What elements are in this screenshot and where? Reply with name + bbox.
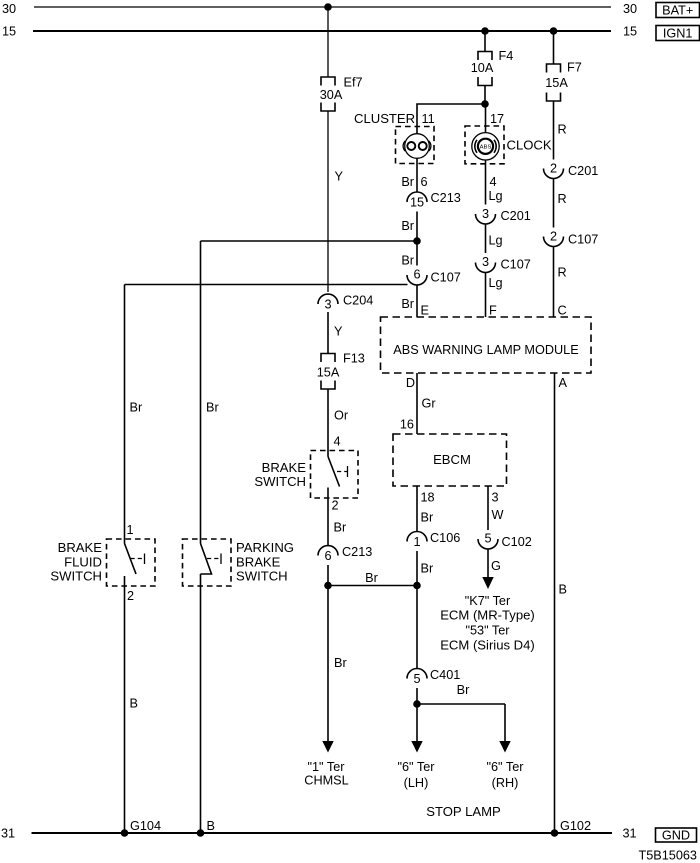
- svg-text:Lg: Lg: [489, 276, 503, 290]
- junction parking on bus 31: [197, 829, 205, 837]
- svg-text:C102: C102: [502, 535, 532, 549]
- wire C213 to stop lamp junction: [327, 565, 329, 586]
- wire C107 to module pin F: [485, 273, 487, 318]
- svg-text:BRAKE: BRAKE: [236, 554, 281, 569]
- junction LH RH split: [413, 700, 421, 708]
- wire EBCM pin 18 to C106: [416, 486, 418, 532]
- label "6" Ter (RH): [487, 760, 525, 790]
- svg-text:Or: Or: [334, 408, 349, 422]
- svg-text:W: W: [492, 508, 504, 522]
- svg-text:C106: C106: [430, 531, 460, 545]
- svg-text:Y: Y: [335, 169, 344, 183]
- junction G104 on bus 31: [121, 829, 129, 837]
- svg-text:"1" Ter: "1" Ter: [308, 760, 346, 774]
- svg-text:C201: C201: [568, 164, 598, 178]
- svg-text:31: 31: [1, 826, 15, 840]
- svg-text:B: B: [207, 819, 215, 833]
- label "6" Ter (LH): [398, 760, 436, 790]
- svg-text:"53" Ter: "53" Ter: [465, 624, 510, 638]
- wire bus 15 to fuse F4: [484, 31, 486, 52]
- ground symbol GND: [656, 828, 697, 842]
- wire bus 30 rail: [34, 6, 611, 8]
- wire C201 to C107: [553, 179, 555, 228]
- arrow to CHMSL: [322, 741, 333, 753]
- svg-text:T5B15063: T5B15063: [638, 849, 697, 863]
- svg-text:F4: F4: [499, 49, 514, 63]
- svg-text:F: F: [489, 304, 497, 318]
- junction G102 on bus 31: [551, 829, 559, 837]
- svg-text:F7: F7: [567, 61, 582, 75]
- wire to RH stop lamp: [504, 704, 506, 742]
- svg-text:Br: Br: [334, 656, 347, 670]
- svg-text:R: R: [558, 192, 567, 206]
- svg-text:ABS WARNING LAMP MODULE: ABS WARNING LAMP MODULE: [393, 343, 578, 357]
- svg-text:Br: Br: [130, 400, 143, 414]
- label BRAKE FLUID SWITCH: [50, 540, 102, 584]
- svg-text:Br: Br: [457, 683, 470, 697]
- wire module pin A to bus 31: [554, 373, 556, 833]
- junction stop lamp node: [413, 582, 421, 590]
- svg-text:Br: Br: [401, 219, 414, 233]
- wire C201 to C107: [485, 224, 487, 253]
- fuse Ef7: [321, 77, 335, 111]
- wire node to C401: [416, 586, 418, 670]
- brake fluid switch S2: [107, 539, 156, 586]
- wire C204 to fuse F13: [327, 312, 329, 354]
- svg-text:Br: Br: [421, 561, 434, 575]
- svg-text:2: 2: [550, 230, 557, 244]
- svg-text:C: C: [558, 304, 567, 318]
- svg-text:Gr: Gr: [422, 396, 437, 410]
- svg-text:"6" Ter: "6" Ter: [487, 760, 525, 774]
- svg-text:Br: Br: [206, 400, 219, 414]
- svg-text:Lg: Lg: [489, 189, 503, 203]
- svg-text:6: 6: [413, 268, 420, 282]
- connector C401 pin 5: [407, 669, 427, 686]
- wire bus 15 rail: [33, 30, 611, 32]
- wire junction to C107: [416, 241, 418, 266]
- svg-text:15A: 15A: [317, 366, 340, 380]
- svg-text:30: 30: [2, 2, 16, 16]
- svg-text:"K7" Ter: "K7" Ter: [465, 594, 511, 608]
- svg-text:15A: 15A: [545, 76, 568, 90]
- wire EBCM pin 3 to C102: [487, 486, 489, 530]
- svg-text:C107: C107: [568, 233, 598, 247]
- svg-text:ECM (MR-Type): ECM (MR-Type): [440, 608, 535, 623]
- wire junction to clock lamp: [485, 104, 487, 133]
- label "1" Ter CHMSL: [304, 760, 348, 787]
- wire F7 to C201: [553, 101, 555, 160]
- svg-text:R: R: [558, 265, 567, 279]
- svg-text:3: 3: [492, 490, 499, 504]
- wire bus 31 rail: [32, 832, 613, 834]
- svg-text:18: 18: [421, 490, 435, 504]
- connector C107 pin 3: [476, 255, 496, 273]
- svg-text:A: A: [559, 376, 568, 390]
- junction on bus 15 for F4: [481, 27, 489, 35]
- parking brake switch S3: [183, 539, 232, 586]
- connector C107 pin 6: [407, 268, 427, 286]
- svg-text:C204: C204: [343, 294, 373, 308]
- svg-text:Br: Br: [401, 297, 414, 311]
- svg-text:2: 2: [127, 589, 134, 603]
- svg-text:15: 15: [623, 25, 637, 39]
- svg-text:Y: Y: [334, 324, 343, 338]
- svg-text:IGN1: IGN1: [663, 26, 693, 40]
- svg-text:BRAKE: BRAKE: [262, 460, 307, 475]
- svg-text:CHMSL: CHMSL: [304, 773, 348, 787]
- svg-text:R: R: [558, 122, 567, 136]
- svg-text:30: 30: [623, 2, 637, 16]
- svg-text:6: 6: [324, 549, 331, 563]
- svg-text:SWITCH: SWITCH: [236, 569, 288, 584]
- svg-text:Br: Br: [401, 253, 414, 267]
- svg-text:CLOCK: CLOCK: [507, 138, 552, 153]
- fuse F13: [321, 354, 335, 390]
- svg-text:C201: C201: [501, 209, 531, 223]
- svg-text:B: B: [130, 696, 138, 710]
- svg-text:G102: G102: [560, 819, 591, 833]
- svg-text:1: 1: [413, 535, 420, 549]
- wire fuse Ef7 to C204: [327, 111, 329, 292]
- svg-text:F13: F13: [343, 351, 365, 365]
- svg-text:15: 15: [410, 195, 424, 209]
- svg-text:Br: Br: [365, 571, 378, 585]
- svg-text:C107: C107: [501, 258, 531, 272]
- svg-text:5: 5: [413, 672, 420, 686]
- svg-text:B: B: [559, 582, 567, 596]
- wire C106 to stop lamp node: [416, 551, 418, 586]
- svg-text:1: 1: [127, 523, 134, 537]
- indicator lamp ABS (clock): [465, 126, 504, 164]
- wire brake fluid switch to bus 31: [124, 576, 126, 833]
- ECU EBCM: [393, 434, 507, 486]
- svg-text:31: 31: [623, 826, 637, 840]
- wire tie to parking brake switch: [200, 241, 202, 544]
- svg-text:30A: 30A: [320, 88, 343, 102]
- svg-text:Br: Br: [334, 520, 347, 534]
- wire tie to brake fluid switch: [124, 285, 126, 544]
- wire C213 to tie junction: [416, 212, 418, 242]
- svg-text:E: E: [421, 304, 429, 318]
- svg-text:C213: C213: [342, 545, 372, 559]
- svg-text:G104: G104: [130, 819, 161, 833]
- connector C213 pin 6: [318, 546, 338, 563]
- svg-text:GND: GND: [662, 828, 690, 842]
- fuse F7: [547, 64, 561, 101]
- svg-text:4: 4: [334, 435, 341, 449]
- svg-text:C107: C107: [431, 271, 461, 285]
- wire F13 to brake switch: [327, 389, 329, 457]
- svg-text:4: 4: [490, 175, 497, 189]
- svg-text:3: 3: [482, 255, 489, 269]
- junction on bus 15 for F7: [550, 27, 558, 35]
- arrow to RH stop lamp: [499, 741, 510, 753]
- junction on bus 30: [324, 3, 332, 11]
- wire module pin D to EBCM pin 16: [416, 373, 418, 434]
- arrow to LH stop lamp: [411, 741, 422, 753]
- wire brake switch to C213: [327, 488, 329, 547]
- svg-text:10A: 10A: [471, 61, 494, 75]
- svg-text:CLUSTER: CLUSTER: [354, 111, 415, 126]
- wire to LH stop lamp: [416, 704, 418, 742]
- wire junction to cluster lamp: [417, 104, 485, 134]
- svg-text:SWITCH: SWITCH: [254, 474, 306, 489]
- svg-text:FLUID: FLUID: [64, 554, 102, 569]
- brake switch S1: [311, 451, 359, 499]
- junction lamp feed split: [481, 100, 489, 108]
- svg-text:ABS: ABS: [480, 144, 492, 150]
- svg-text:BRAKE: BRAKE: [58, 540, 103, 555]
- svg-text:Br: Br: [421, 510, 434, 524]
- svg-text:STOP LAMP: STOP LAMP: [426, 804, 501, 819]
- connector C107 pin 2: [544, 230, 564, 247]
- svg-text:ECM (Sirius D4): ECM (Sirius D4): [440, 637, 535, 652]
- svg-text:EBCM: EBCM: [433, 452, 471, 467]
- power symbol BAT+: [656, 3, 700, 18]
- svg-text:Lg: Lg: [489, 233, 503, 247]
- label PARKING BRAKE SWITCH: [236, 540, 294, 584]
- svg-text:G: G: [491, 559, 501, 573]
- svg-text:3: 3: [324, 297, 331, 311]
- connector C201 pin 3: [476, 207, 496, 224]
- wire C401 to LH RH split: [416, 688, 418, 704]
- svg-text:(RH): (RH): [492, 776, 519, 790]
- svg-text:17: 17: [490, 112, 504, 126]
- junction parking brake tie: [413, 237, 421, 245]
- wire clock lamp to C201: [485, 160, 487, 205]
- wire cluster lamp to C213: [416, 158, 418, 192]
- svg-text:Br: Br: [401, 175, 414, 189]
- wire junction to CHMSL arrow: [327, 586, 329, 743]
- svg-text:2: 2: [332, 499, 339, 513]
- wire stop lamp node to CHMSL branch: [328, 585, 417, 587]
- svg-text:6: 6: [421, 175, 428, 189]
- power symbol IGN1: [656, 26, 700, 41]
- wire parking brake switch to bus 31: [200, 574, 202, 833]
- svg-text:SWITCH: SWITCH: [50, 569, 102, 584]
- wire C107 to module pin C: [553, 247, 555, 318]
- svg-text:BAT+: BAT+: [662, 3, 693, 17]
- wire split to RH branch: [417, 703, 505, 705]
- svg-text:"6" Ter: "6" Ter: [398, 760, 436, 774]
- label ECM terminals: [440, 594, 535, 652]
- svg-text:15: 15: [2, 25, 16, 39]
- wire brake fluid switch tie: [125, 284, 408, 286]
- wire bus 30 to fuse Ef7: [327, 7, 329, 77]
- svg-text:16: 16: [400, 418, 414, 432]
- connector C204 pin 3: [318, 294, 338, 311]
- fuse F4: [478, 52, 492, 86]
- wire C102 to ECM: [487, 549, 489, 578]
- wire C107 to module pin E: [416, 285, 418, 318]
- connector C213 pin 15: [407, 192, 427, 209]
- indicator lamp brake warning (cluster): [396, 127, 435, 164]
- svg-text:5: 5: [484, 532, 491, 546]
- connector C106 pin 1: [407, 532, 427, 549]
- svg-text:2: 2: [550, 162, 557, 176]
- wire tie to parking brake switch: [201, 240, 418, 242]
- svg-text:PARKING: PARKING: [236, 540, 294, 555]
- module ABS WARNING LAMP MODULE: [381, 317, 592, 373]
- svg-text:C401: C401: [430, 668, 460, 682]
- svg-text:11: 11: [422, 112, 435, 126]
- label BRAKE SWITCH: [254, 460, 306, 489]
- svg-text:Ef7: Ef7: [344, 75, 363, 89]
- svg-text:3: 3: [482, 207, 489, 221]
- junction stop lamp feed: [324, 582, 332, 590]
- wire F4 to lamp split junction: [484, 86, 486, 105]
- svg-text:(LH): (LH): [404, 776, 429, 790]
- svg-text:C213: C213: [431, 191, 461, 205]
- svg-text:D: D: [406, 376, 415, 390]
- wire bus 15 to fuse F7: [553, 31, 555, 64]
- connector C201 pin 2: [544, 162, 564, 179]
- arrow to ECM: [482, 577, 493, 589]
- connector C102 pin 5: [478, 532, 498, 550]
